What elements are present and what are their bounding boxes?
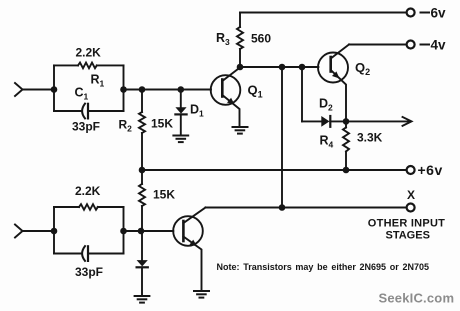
svg-text:R1: R1 (91, 73, 105, 89)
svg-text:6v: 6v (431, 6, 447, 21)
label 2.2K (lower) (75, 184, 101, 198)
junction right of RC box 2 (120, 228, 127, 235)
label Q2 (355, 60, 370, 77)
capacitor C1 33pF (54, 110, 81, 112)
label D1 (190, 103, 204, 119)
terminal +6v (407, 166, 415, 174)
svg-text:Note: Transistors may be e: Note: Transistors may be either 2N695 or… (217, 262, 430, 272)
wire box2 right edge (123, 207, 125, 254)
label 15K (lower) (153, 188, 175, 202)
ground (D1) (173, 136, 188, 143)
ground (Q1 emitter) (233, 127, 248, 134)
svg-text:OTHER INPUT: OTHER INPUT (368, 218, 445, 230)
svg-text:C1: C1 (75, 86, 89, 102)
label X (407, 188, 415, 202)
wire -6v rail (240, 12, 407, 14)
resistor R1 2.2K (54, 64, 78, 66)
resistor 2.2K (lower) (54, 206, 79, 208)
junction X row / x282 (279, 204, 286, 211)
label -6v (421, 6, 447, 21)
diode D2 (302, 120, 322, 122)
junction node x282 (279, 64, 286, 71)
note text (217, 262, 430, 272)
svg-text:R4: R4 (320, 134, 334, 150)
junction base row 2 / 15K (138, 228, 145, 235)
capacitor 33pF (lower) (54, 253, 81, 255)
label OTHER INPUT (368, 218, 445, 230)
wire -4v rail (349, 44, 407, 46)
junction right of RC box 1 (120, 86, 127, 93)
arrow (output to other stages) (403, 117, 412, 126)
svg-text:33pF: 33pF (75, 265, 103, 279)
svg-text:2.2K: 2.2K (75, 184, 101, 198)
svg-text:SeekIC.com: SeekIC.com (379, 291, 455, 306)
label R2 (119, 118, 133, 134)
diode D1 (180, 90, 182, 108)
label C1 (75, 86, 89, 102)
junction left of RC box 1 (51, 86, 58, 93)
junction left of RC box 2 (51, 228, 58, 235)
diode (lower, unlabeled) (141, 231, 143, 260)
ground (Q3 emitter) (194, 291, 209, 298)
terminal -4v (407, 41, 415, 49)
wire base row 1 to Q1 (124, 89, 212, 91)
wire vertical node x302 to D2 (301, 67, 303, 121)
label Q1 (248, 83, 263, 100)
junction node at R3/Q1 collector (237, 64, 244, 71)
ground (lower diode) (135, 296, 150, 303)
svg-text:X: X (407, 188, 415, 202)
junction +6v/R2 (139, 167, 146, 174)
junction +6v/R4 (343, 167, 350, 174)
input arrow (top input) (15, 83, 23, 96)
transistor Q3 (unlabeled) (173, 216, 203, 246)
junction D2/R4/Q2 emitter (343, 118, 350, 125)
label R3 (216, 31, 230, 47)
transistor Q1 (211, 75, 241, 105)
wire X row (206, 207, 407, 209)
input arrow (bottom input) (15, 225, 23, 238)
label -4v (421, 38, 447, 53)
svg-text:33pF: 33pF (72, 120, 100, 134)
wire box1 left edge (53, 65, 55, 111)
svg-text:Q1: Q1 (248, 83, 263, 100)
label D2 (319, 97, 333, 113)
wire box1 right edge (123, 65, 125, 111)
svg-text:3.3K: 3.3K (357, 131, 383, 145)
junction base row / D1 (178, 86, 185, 93)
svg-text:Q2: Q2 (355, 60, 370, 77)
transistor Q2 (318, 53, 348, 83)
label +6v (418, 162, 443, 178)
junction node x302 (299, 64, 306, 71)
label 560 (251, 32, 271, 46)
label 33pF (72, 120, 100, 134)
watermark SeekIC.com (379, 291, 455, 306)
wire box2 left edge (53, 207, 55, 254)
resistor R3 (239, 13, 241, 28)
svg-text:R3: R3 (216, 31, 230, 47)
label 33pF (lower) (75, 265, 103, 279)
label 15K (R2) (151, 117, 173, 131)
wire input to box 2 (23, 230, 55, 232)
label 3.3K (357, 131, 383, 145)
svg-text:15K: 15K (151, 117, 173, 131)
svg-text:2.2K: 2.2K (76, 46, 102, 60)
resistor R2 15K (141, 90, 143, 113)
wire base row 2 (124, 230, 174, 232)
label 2.2K (R1) (76, 46, 102, 60)
terminal X (407, 204, 415, 212)
resistor R4 3.3K (345, 121, 347, 127)
svg-text:STAGES: STAGES (386, 230, 430, 242)
junction base row / R2 (139, 86, 146, 93)
svg-text:15K: 15K (153, 188, 175, 202)
svg-text:+6v: +6v (418, 162, 443, 178)
label R1 (91, 73, 105, 89)
svg-text:D1: D1 (190, 103, 204, 119)
terminal -6v (407, 9, 415, 17)
label R4 (320, 134, 334, 150)
wire input to box (23, 89, 55, 91)
svg-text:4v: 4v (431, 38, 447, 53)
svg-text:D2: D2 (319, 97, 333, 113)
svg-text:560: 560 (251, 32, 271, 46)
resistor 15K (lower) (141, 170, 143, 184)
wire +6v rail (142, 169, 407, 171)
label STAGES (386, 230, 430, 242)
wire main node row (240, 66, 318, 68)
wire vertical node x282 (281, 67, 283, 208)
svg-text:R2: R2 (119, 118, 133, 134)
